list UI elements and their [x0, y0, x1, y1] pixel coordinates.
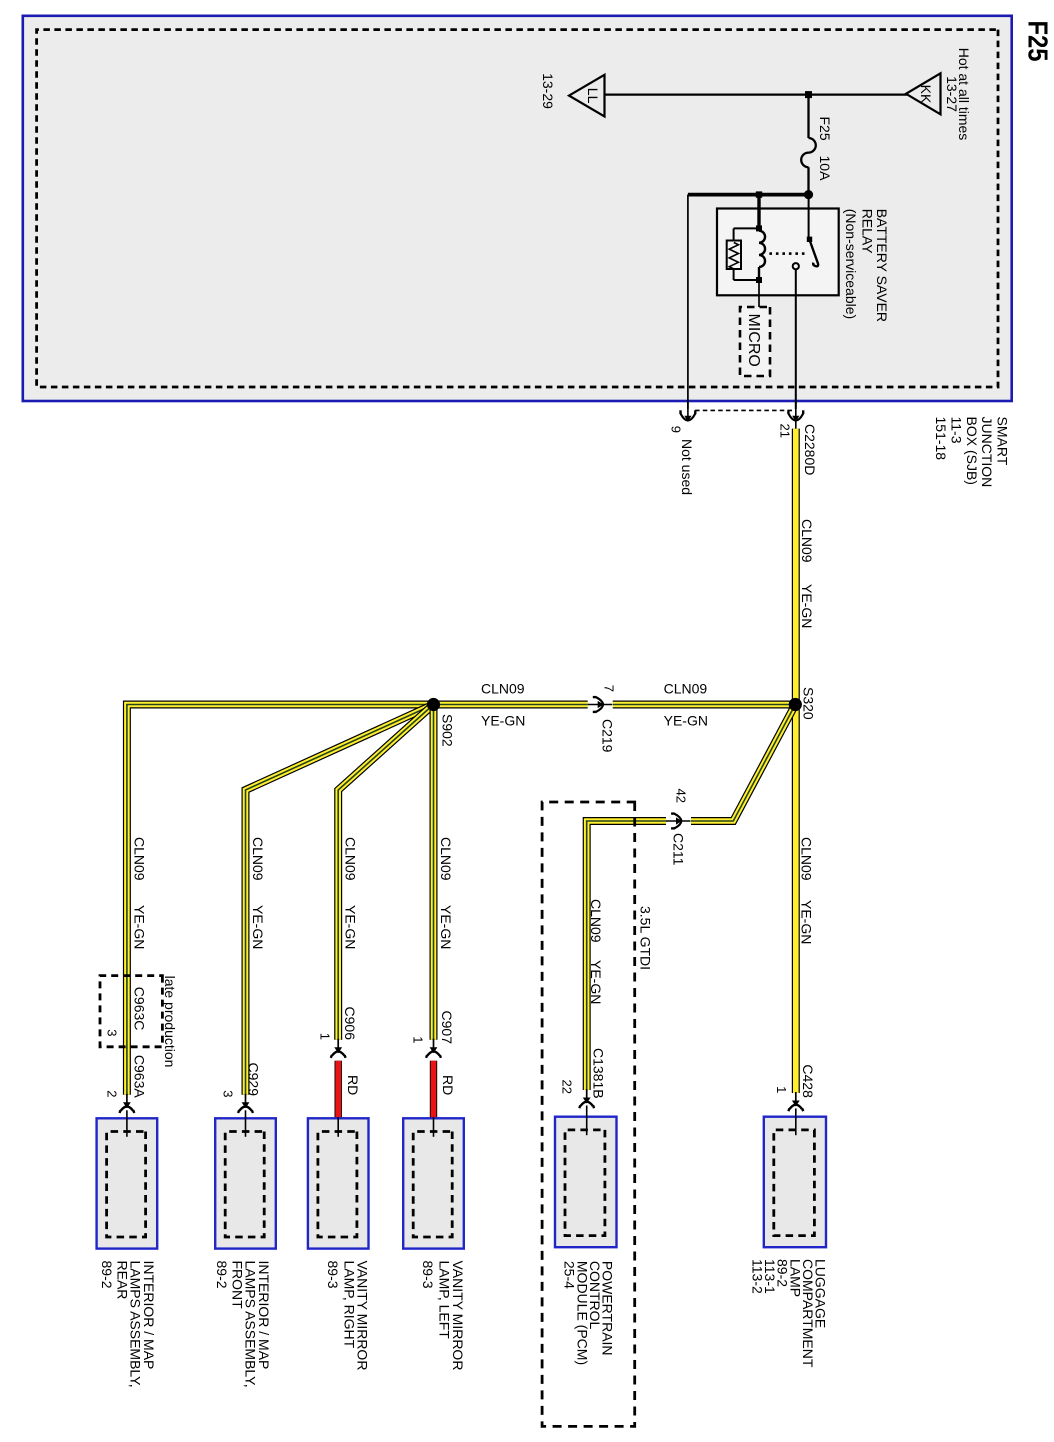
- C929 labels: [221, 1063, 262, 1098]
- svg-text:C963A: C963A: [131, 1055, 147, 1098]
- svg-text:YE-GN: YE-GN: [799, 900, 815, 944]
- svg-text:C963C: C963C: [131, 987, 147, 1031]
- connector C1381B pin 22: [579, 1089, 594, 1108]
- svg-text:3: 3: [221, 1090, 236, 1097]
- wire CLN09 YE-GN S320 to S902 to C963A (branch A): [127, 705, 795, 1095]
- svg-text:89-2: 89-2: [99, 1261, 115, 1289]
- svg-text:3: 3: [104, 1029, 119, 1036]
- svg-text:89-2: 89-2: [214, 1261, 230, 1289]
- entry line into luggage lamp box: [795, 1109, 797, 1136]
- power feed label Hot at all times 13-27: [944, 48, 972, 141]
- svg-text:89-3: 89-3: [420, 1261, 436, 1289]
- svg-text:CLN09: CLN09: [664, 681, 708, 697]
- svg-text:1: 1: [774, 1086, 789, 1093]
- wire labels PCM branch: [588, 899, 604, 1004]
- svg-text:C1381B: C1381B: [591, 1048, 607, 1099]
- svg-text:3.5L GTDI: 3.5L GTDI: [638, 906, 654, 970]
- wire relay contact to pin 21: [795, 269, 797, 409]
- inline connector C219 pin 7: [588, 697, 613, 712]
- svg-text:10A: 10A: [817, 156, 833, 182]
- svg-text:9: 9: [669, 426, 684, 433]
- wire CLN09 YE-GN S320 to C1381B (PCM branch): [587, 705, 796, 1091]
- C907 labels: [410, 1011, 456, 1096]
- C906 labels: [318, 1007, 362, 1096]
- vanity mirror lamp right label 89-3: [325, 1261, 371, 1371]
- relay actuator dotted link: [769, 252, 804, 255]
- svg-text:LL: LL: [585, 88, 601, 104]
- svg-text:C929: C929: [246, 1063, 262, 1097]
- svg-text:89-3: 89-3: [325, 1261, 341, 1289]
- svg-text:C2280D: C2280D: [802, 424, 818, 475]
- junction bus / fuse: [804, 190, 813, 199]
- wire RD C907 to vanity mirror left: [430, 1061, 437, 1118]
- wire CLN09 YE-GN from C2280D to S320 to C428: [792, 429, 800, 1093]
- inline connector C211 pin 42: [666, 814, 691, 829]
- wire labels branch D: [438, 837, 454, 949]
- luggage compartment lamp label 89-2 113-1 113-2: [750, 1259, 829, 1368]
- svg-text:RELAY: RELAY: [860, 209, 876, 255]
- svg-text:CLN09: CLN09: [799, 837, 815, 881]
- svg-text:YE-GN: YE-GN: [132, 905, 148, 949]
- wire power rail from KK to LL: [605, 93, 908, 95]
- connector C929 pin 3: [238, 1094, 253, 1113]
- svg-text:CLN09: CLN09: [250, 837, 266, 881]
- Smart Junction Box (SJB) outline: [23, 16, 1012, 401]
- svg-text:S320: S320: [800, 687, 816, 720]
- vanity mirror lamp right box: [308, 1117, 369, 1248]
- luggage compartment lamp box: [764, 1116, 826, 1248]
- svg-text:MICRO: MICRO: [745, 314, 762, 367]
- svg-text:13-27: 13-27: [944, 76, 960, 112]
- connector C963A pin 2: [120, 1094, 135, 1113]
- vanity mirror lamp left label 89-3: [420, 1261, 466, 1371]
- off-page power connector KK: [906, 73, 941, 114]
- wire CLN09 YE-GN S902 to C906 (branch C): [338, 705, 433, 1040]
- connector C2280D group dashed line: [692, 409, 792, 411]
- svg-text:CLN09: CLN09: [132, 837, 148, 881]
- battery saver relay box: [717, 209, 839, 296]
- PCM label 25-4: [562, 1261, 616, 1365]
- svg-text:C907: C907: [439, 1011, 455, 1045]
- svg-text:FRONT: FRONT: [229, 1261, 245, 1310]
- vanity mirror lamp left box: [403, 1117, 464, 1248]
- svg-text:C428: C428: [800, 1064, 816, 1098]
- relay suppression resistor (parallel): [727, 228, 759, 280]
- svg-text:YE-GN: YE-GN: [588, 960, 604, 1004]
- interior/map lamps assembly front box: [215, 1117, 276, 1248]
- junction power rail to fuse branch: [805, 91, 812, 98]
- svg-text:YE-GN: YE-GN: [799, 584, 815, 628]
- battery saver relay label: [843, 209, 890, 322]
- wire name labels S320 to C428 segment: [799, 837, 815, 944]
- wire labels branch C: [343, 837, 359, 949]
- rotated wire labels between C219 and S320: [664, 681, 708, 729]
- svg-text:(Non-serviceable): (Non-serviceable): [843, 209, 859, 319]
- connector C906 pin 1: [331, 1039, 346, 1058]
- rotated wire labels between S902 and C219: [481, 681, 525, 729]
- svg-text:1: 1: [318, 1033, 333, 1040]
- svg-text:JUNCTION: JUNCTION: [979, 417, 995, 488]
- C963A labels: [104, 1055, 147, 1098]
- svg-text:KK: KK: [918, 85, 934, 104]
- svg-text:42: 42: [674, 789, 689, 803]
- svg-text:REAR: REAR: [114, 1261, 130, 1300]
- splice S902: [427, 698, 456, 747]
- connector C907 pin 1: [426, 1039, 441, 1058]
- svg-text:F25: F25: [1023, 21, 1054, 62]
- svg-text:C211: C211: [671, 833, 687, 866]
- SJB name label SMART JUNCTION BOX (SJB) 11-3 151-18: [933, 417, 1011, 488]
- wire CLN09 YE-GN S902 to C907 (branch D): [430, 705, 438, 1040]
- svg-text:CLN09: CLN09: [343, 837, 359, 881]
- wire CLN09 YE-GN S902 to C929 (branch B): [246, 705, 434, 1095]
- svg-text:C906: C906: [342, 1007, 358, 1041]
- svg-text:LAMP, LEFT: LAMP, LEFT: [437, 1261, 453, 1340]
- svg-text:late production: late production: [162, 976, 178, 1068]
- svg-text:13-29: 13-29: [540, 73, 556, 109]
- svg-text:F25: F25: [817, 117, 833, 141]
- svg-text:YE-GN: YE-GN: [438, 905, 454, 949]
- svg-text:1: 1: [410, 1036, 425, 1043]
- MICRO driver box: [740, 307, 770, 376]
- fuse F25 10A: [801, 95, 833, 195]
- relay switch contact: [793, 196, 818, 269]
- svg-text:2: 2: [104, 1090, 119, 1097]
- svg-text:YE-GN: YE-GN: [343, 905, 359, 949]
- svg-text:C219: C219: [600, 719, 616, 753]
- C428 labels: [774, 1064, 816, 1098]
- wire bus to pin 9: [687, 195, 689, 409]
- svg-text:22: 22: [560, 1080, 575, 1094]
- svg-text:RD: RD: [440, 1075, 456, 1095]
- inline connector C963C pin 3 (late production): [100, 976, 162, 1047]
- svg-text:CLN09: CLN09: [799, 519, 815, 563]
- off-page power connector LL 13-29: [540, 73, 605, 116]
- interior/map lamps rear label 89-2: [99, 1261, 157, 1388]
- SJB pin 21 connector C2280D: [788, 401, 803, 430]
- 3.5L GTDI engine option dashed box: [542, 802, 635, 1426]
- wire name labels C2280D segment: [799, 424, 818, 628]
- svg-text:21: 21: [778, 424, 793, 438]
- wire relay coil to MICRO: [758, 283, 760, 311]
- svg-text:7: 7: [602, 685, 617, 692]
- SJB inner dashed border: [37, 30, 998, 387]
- C1381B labels: [560, 1048, 607, 1099]
- svg-text:113-2: 113-2: [750, 1259, 766, 1294]
- svg-text:SMART: SMART: [995, 417, 1011, 466]
- svg-text:YE-GN: YE-GN: [664, 713, 708, 729]
- wire labels branch A: [132, 837, 148, 949]
- SJB pin 9 connector (Not used): [681, 401, 696, 422]
- svg-text:YE-GN: YE-GN: [250, 905, 266, 949]
- entry line into PCM box: [586, 1106, 588, 1136]
- interior/map lamps assembly rear box: [97, 1117, 158, 1248]
- svg-text:YE-GN: YE-GN: [481, 713, 525, 729]
- svg-text:Not used: Not used: [679, 439, 695, 495]
- svg-text:LAMP, RIGHT: LAMP, RIGHT: [341, 1261, 357, 1349]
- wire labels branch B: [250, 837, 266, 949]
- interior/map lamps front label 89-2: [214, 1261, 272, 1388]
- svg-text:11-3: 11-3: [948, 417, 964, 444]
- svg-text:CLN09: CLN09: [588, 899, 604, 943]
- svg-text:CLN09: CLN09: [481, 681, 525, 697]
- svg-text:25-4: 25-4: [562, 1261, 578, 1289]
- svg-text:BATTERY SAVER: BATTERY SAVER: [874, 209, 890, 322]
- fuse output bus (thick): [688, 193, 810, 197]
- splice S320: [789, 687, 817, 720]
- powertrain control module (PCM) box: [555, 1116, 617, 1248]
- wire RD C906 to vanity mirror right: [335, 1061, 342, 1118]
- svg-text:BOX (SJB): BOX (SJB): [964, 417, 980, 485]
- relay coil: [756, 191, 765, 283]
- svg-text:RD: RD: [345, 1075, 361, 1095]
- svg-text:151-18: 151-18: [933, 417, 949, 461]
- entry line into rear lamp box: [126, 1110, 128, 1137]
- svg-text:CLN09: CLN09: [438, 837, 454, 881]
- svg-text:S902: S902: [440, 714, 456, 747]
- entry line into front lamp box: [245, 1110, 247, 1137]
- connector C428 pin 1: [788, 1092, 803, 1111]
